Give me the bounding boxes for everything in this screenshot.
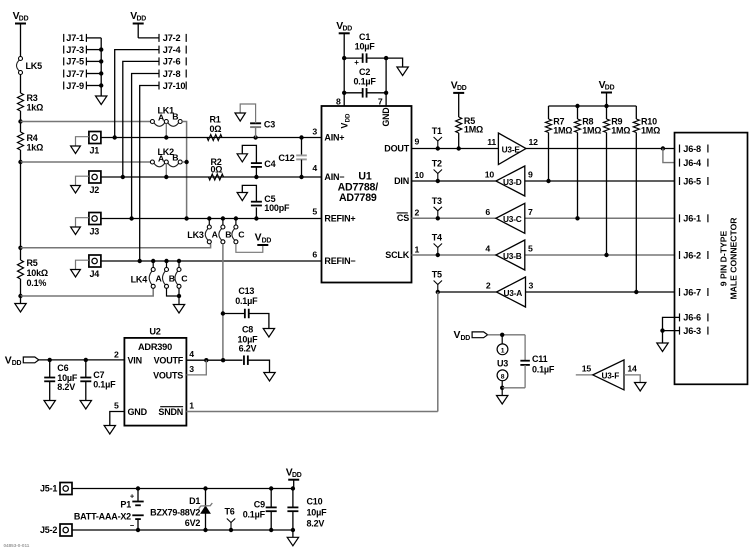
node CS / R8 <box>575 216 579 220</box>
svg-text:LK3: LK3 <box>187 230 204 240</box>
battery P1 BATT-AAA-X2 <box>74 489 144 531</box>
ground U2 GND pin5 <box>104 412 124 435</box>
testpoint T4 <box>432 233 442 258</box>
power VDD symbol (R5 pullup) <box>451 81 467 117</box>
wire J7 odd-pin ground bus <box>86 38 103 96</box>
svg-text:D1: D1 <box>189 496 200 506</box>
svg-text:C8: C8 <box>242 325 253 335</box>
svg-text:R5: R5 <box>27 258 38 268</box>
svg-text:J6-4: J6-4 <box>683 158 702 168</box>
wire battery top rail <box>72 486 295 490</box>
svg-text:1MΩ: 1MΩ <box>464 124 483 134</box>
power VDD flag (U2 VIN) <box>5 355 39 367</box>
power VDD symbol (J7-2) <box>130 11 146 38</box>
connector J7 odd pins J7-1/3/5/7/9 <box>64 33 87 91</box>
testpoint T2 <box>432 159 442 184</box>
capacitor C4 <box>237 145 275 177</box>
ground J1 <box>71 137 89 154</box>
wire R3 to node, left rail <box>20 111 22 132</box>
svg-text:C: C <box>238 229 245 239</box>
power VDD flag (U3 supply) <box>454 330 488 342</box>
svg-text:LK4: LK4 <box>131 274 148 284</box>
node C1/C2 right <box>384 56 388 60</box>
wire J7-8 to REFIN+ net <box>132 74 159 219</box>
svg-text:BATT-AAA-X2: BATT-AAA-X2 <box>74 512 131 522</box>
svg-text:0.1%: 0.1% <box>27 278 47 288</box>
testpoint T1 <box>432 126 442 151</box>
jumper LK2 <box>150 147 182 167</box>
resistor R10 1M <box>633 106 660 292</box>
svg-text:R3: R3 <box>27 93 38 103</box>
svg-text:7: 7 <box>378 96 383 106</box>
connector pin J6-8 <box>680 144 708 154</box>
node left-rail bottom / LK4-A tap <box>18 294 22 298</box>
wire SCLK net <box>412 254 680 256</box>
power VDD symbol (battery output) <box>286 467 302 488</box>
svg-text:9 PIN D-TYPE: 9 PIN D-TYPE <box>719 231 729 287</box>
svg-text:5: 5 <box>114 401 119 411</box>
capacitor C10 10uF 8.2V <box>287 489 327 531</box>
wire LK1 common to AIN+ <box>165 124 167 138</box>
svg-text:J7-2: J7-2 <box>163 33 181 43</box>
svg-text:R4: R4 <box>27 133 38 143</box>
connector J5-2 <box>40 524 72 536</box>
ground battery rail <box>287 530 298 546</box>
power VDD symbol (top-left, feeds LK5) <box>13 11 29 56</box>
svg-text:04853-0-011: 04853-0-011 <box>4 543 30 547</box>
svg-text:4: 4 <box>485 244 490 254</box>
connector pin J6-2 <box>680 250 708 260</box>
connector J4 <box>89 255 101 279</box>
svg-text:CS: CS <box>397 213 409 223</box>
node left-rail / LK1-A tap <box>18 119 22 123</box>
svg-text:B: B <box>169 273 175 283</box>
wire to J6-4 <box>663 149 679 163</box>
wire R4 to node <box>20 150 22 162</box>
wire LK4-B to ground node <box>167 288 180 296</box>
svg-text:AD7789: AD7789 <box>339 192 377 204</box>
svg-text:2: 2 <box>486 281 491 291</box>
svg-text:8.2V: 8.2V <box>57 382 75 392</box>
svg-text:V: V <box>340 123 350 129</box>
svg-text:1kΩ: 1kΩ <box>27 143 44 153</box>
svg-text:10µF: 10µF <box>355 41 376 51</box>
svg-text:9: 9 <box>528 170 533 180</box>
buffer U3-F (unused) <box>576 360 637 390</box>
buffer U3-B <box>485 240 533 270</box>
wire LK3-B to VOUTF net <box>222 244 224 360</box>
ground J3 <box>71 218 89 235</box>
svg-text:1kΩ: 1kΩ <box>27 103 44 113</box>
buffer U3-C <box>485 203 533 233</box>
connector pin J6-3 <box>680 326 708 336</box>
svg-text:C13: C13 <box>238 286 254 296</box>
jumper LK5 <box>17 57 43 75</box>
resistor R3 1k <box>18 93 44 113</box>
svg-text:J6-7: J6-7 <box>683 287 701 297</box>
svg-text:C4: C4 <box>264 159 275 169</box>
node DIN / R7 <box>546 179 550 183</box>
svg-text:B: B <box>172 111 178 121</box>
svg-text:VOUTS: VOUTS <box>153 370 183 380</box>
svg-text:J6-8: J6-8 <box>683 144 701 154</box>
capacitor C7 0.1uF <box>80 358 116 409</box>
svg-text:8.2V: 8.2V <box>307 519 325 529</box>
jumper LK1 <box>150 106 182 127</box>
svg-text:C1: C1 <box>359 32 370 42</box>
svg-text:DD: DD <box>292 472 302 479</box>
buffer U3-A <box>486 277 534 307</box>
power VDD symbol (pullup rail) <box>599 80 615 106</box>
node left-rail / LK2-A tap <box>18 160 22 164</box>
buffer U3-E <box>487 133 538 165</box>
svg-text:J7-8: J7-8 <box>163 69 181 79</box>
svg-text:3: 3 <box>529 281 534 291</box>
wire J1 to net <box>101 137 322 139</box>
svg-text:T1: T1 <box>432 126 442 136</box>
ground C1/C2 <box>386 58 408 75</box>
svg-text:GND: GND <box>128 407 148 417</box>
node C2 left / pin8 stub <box>342 58 346 106</box>
svg-text:J5-1: J5-1 <box>40 484 57 494</box>
connector J6 9-pin D-type box <box>675 133 748 385</box>
capacitor C11 0.1uF <box>520 335 555 388</box>
wire VDD to VIN <box>39 359 125 361</box>
svg-text:J6-2: J6-2 <box>683 250 701 260</box>
svg-text:U3-D: U3-D <box>503 177 522 187</box>
svg-text:REFIN+: REFIN+ <box>324 213 355 223</box>
svg-text:14: 14 <box>627 363 637 373</box>
capacitor C3 <box>235 104 275 138</box>
wire LK1 B to vertical link bus <box>182 122 186 219</box>
svg-text:DD: DD <box>262 238 272 245</box>
ground J2 <box>71 176 89 193</box>
figure number <box>4 543 30 547</box>
svg-text:U3-A: U3-A <box>504 288 523 298</box>
resistor R4 1k <box>18 132 44 153</box>
svg-text:0.1µF: 0.1µF <box>532 364 555 374</box>
wire battery bottom rail <box>72 528 295 532</box>
svg-text:U2: U2 <box>149 326 160 336</box>
svg-text:C11: C11 <box>532 354 548 364</box>
svg-text:+: + <box>354 58 359 67</box>
wire tap to LK3 A <box>21 244 211 248</box>
resistor R7 1M <box>546 106 573 181</box>
wire tap to LK2 A <box>21 161 151 163</box>
node link bus on REFIN+ <box>184 216 188 220</box>
svg-text:6: 6 <box>485 207 490 217</box>
svg-text:J7-4: J7-4 <box>163 45 182 55</box>
capacitor C9 0.1uF <box>243 489 277 531</box>
svg-text:2: 2 <box>415 207 420 217</box>
IC U3 label <box>497 358 508 368</box>
wire pullup rail <box>549 104 637 108</box>
svg-text:V: V <box>255 233 262 244</box>
svg-text:1MΩ: 1MΩ <box>553 126 572 136</box>
wire DIN net <box>412 180 680 182</box>
connector pin J6-1 <box>680 214 708 224</box>
connector J5-1 <box>40 483 72 495</box>
resistor R8 1M <box>575 106 602 218</box>
svg-text:J7-7: J7-7 <box>66 69 84 79</box>
svg-text:C2: C2 <box>359 67 370 77</box>
connector J2 <box>89 171 101 195</box>
svg-text:J6-5: J6-5 <box>683 176 701 186</box>
capacitor C5 100pF <box>237 185 290 218</box>
wire LK5 to R3 <box>20 75 22 94</box>
svg-text:DD: DD <box>457 85 467 92</box>
wire J4 to net <box>101 260 322 262</box>
wire J2 to net <box>101 176 322 178</box>
svg-text:DD: DD <box>343 25 353 32</box>
svg-text:J7-9: J7-9 <box>66 81 84 91</box>
svg-text:2: 2 <box>114 350 119 360</box>
node C2 right / pin7 stub <box>384 58 388 106</box>
svg-text:U3: U3 <box>497 358 508 368</box>
svg-text:8: 8 <box>336 96 341 106</box>
svg-text:U3-C: U3-C <box>503 214 522 224</box>
capacitor C1 10uF <box>344 32 386 67</box>
svg-text:100pF: 100pF <box>264 203 290 213</box>
svg-text:11: 11 <box>487 137 496 147</box>
svg-text:0.1µF: 0.1µF <box>243 509 266 519</box>
connector J3 <box>89 213 101 237</box>
svg-text:DD: DD <box>12 360 22 367</box>
wire CS net <box>412 217 680 219</box>
svg-text:0.1µF: 0.1µF <box>353 77 376 87</box>
voltage reference U2 ADR390 <box>114 326 194 425</box>
ground U3-F output <box>624 375 646 391</box>
node line5 / R10 <box>634 290 638 294</box>
zener diode D1 BZX79-88V2 6V2 <box>150 489 212 531</box>
wire left rail down <box>20 162 22 260</box>
node REFIN+ junctions <box>129 216 258 220</box>
node U3 pin8 / C11 bottom <box>500 386 525 390</box>
svg-text:J2: J2 <box>90 185 100 195</box>
wire VOUTS loop <box>186 360 206 375</box>
svg-text:U3-F: U3-F <box>601 371 619 381</box>
wire J7-10 to REFIN- net <box>140 86 159 262</box>
svg-text:3: 3 <box>312 126 317 136</box>
svg-text:C: C <box>181 273 188 283</box>
ground LK4 B/C <box>173 288 184 313</box>
wire J7-4 to AIN+ net <box>115 50 159 138</box>
wire R5 to bottom node <box>20 279 22 296</box>
svg-text:3: 3 <box>189 364 194 374</box>
svg-text:T4: T4 <box>432 233 442 243</box>
svg-text:C3: C3 <box>264 120 275 130</box>
svg-text:1: 1 <box>415 244 420 254</box>
wire J7-6 to AIN- net <box>123 61 159 177</box>
wire LK3-C to VDD <box>236 244 263 253</box>
svg-text:SCLK: SCLK <box>385 250 409 260</box>
connector J7 even pins J7-2/4/6/8/10 <box>159 33 186 91</box>
svg-text:SNDN: SNDN <box>158 407 183 417</box>
svg-text:C10: C10 <box>307 496 323 506</box>
svg-text:DD: DD <box>19 16 29 23</box>
ADC U1 AD7788/AD7789 <box>312 96 424 282</box>
connector pin J6-4 <box>680 158 708 168</box>
svg-text:15: 15 <box>582 363 592 373</box>
power VDD symbol (LK3-C) <box>255 233 272 245</box>
svg-text:0.1µF: 0.1µF <box>235 296 258 306</box>
wire VOUTF net <box>186 358 242 362</box>
wire SNDN net to T5 <box>186 292 437 412</box>
svg-text:DOUT: DOUT <box>384 143 409 153</box>
ground left-rail bottom <box>15 296 26 312</box>
node LK3-B / C13 tap <box>221 311 225 315</box>
svg-text:10: 10 <box>415 170 425 180</box>
svg-text:P1: P1 <box>120 499 131 509</box>
ground J4 <box>71 260 89 277</box>
svg-text:6V2: 6V2 <box>185 518 201 528</box>
svg-text:V: V <box>5 355 12 366</box>
svg-text:C9: C9 <box>254 500 265 510</box>
wire LK2 common to AIN- <box>165 164 167 177</box>
svg-text:J7-5: J7-5 <box>66 57 84 67</box>
capacitor C2 0.1uF <box>344 67 386 98</box>
jumper LK3 <box>187 219 245 244</box>
svg-text:T6: T6 <box>224 507 234 517</box>
svg-text:T5: T5 <box>432 270 442 280</box>
svg-text:AIN−: AIN− <box>324 172 344 182</box>
svg-text:BZX79-88V2: BZX79-88V2 <box>150 508 200 518</box>
node AIN+ junctions <box>113 135 304 139</box>
capacitor C8 10uF 6.2V <box>238 325 276 381</box>
svg-text:1MΩ: 1MΩ <box>582 126 601 136</box>
buffer U3-D <box>485 166 533 196</box>
svg-text:ADR390: ADR390 <box>138 342 172 352</box>
jumper LK4 <box>131 261 189 288</box>
node DOUT / J6-8 J6-4 <box>661 146 665 150</box>
svg-text:7: 7 <box>528 207 533 217</box>
svg-text:J6-3: J6-3 <box>683 326 701 336</box>
wire DOUT net <box>412 148 680 150</box>
svg-text:J7-10: J7-10 <box>163 81 186 91</box>
capacitor C6 10uF 8.2V <box>44 358 78 409</box>
svg-text:10: 10 <box>485 170 495 180</box>
svg-text:1MΩ: 1MΩ <box>641 126 660 136</box>
svg-text:V: V <box>454 330 461 341</box>
svg-text:B: B <box>172 152 178 162</box>
svg-text:4: 4 <box>312 163 317 173</box>
svg-text:J4: J4 <box>90 269 100 279</box>
ground U3 pin8 <box>497 388 508 404</box>
node AIN- junctions <box>121 175 304 179</box>
wire tap to LK4 A <box>21 288 154 296</box>
svg-text:T3: T3 <box>432 196 442 206</box>
wire buffered line to J6-7 <box>438 291 680 293</box>
testpoint T3 <box>432 196 442 221</box>
connector pin J6-6 <box>680 313 708 323</box>
connector pin J6-5 <box>680 176 708 186</box>
svg-text:A: A <box>156 273 163 283</box>
capacitor C12 <box>278 138 306 178</box>
svg-text:4: 4 <box>189 349 194 359</box>
svg-text:12: 12 <box>529 137 539 147</box>
svg-text:0Ω: 0Ω <box>210 124 222 134</box>
svg-text:6.2V: 6.2V <box>239 344 257 354</box>
svg-text:MALE CONNECTOR: MALE CONNECTOR <box>729 217 739 300</box>
IC U3 power pin 1 <box>497 335 508 355</box>
svg-text:10µF: 10µF <box>307 508 328 518</box>
svg-text:U3-B: U3-B <box>503 251 522 261</box>
testpoint T5 <box>432 270 442 294</box>
svg-text:VOUTF: VOUTF <box>154 356 184 366</box>
wire VDD to U3 pin1 / C11 <box>488 333 525 337</box>
svg-text:J5-2: J5-2 <box>40 525 57 535</box>
svg-text:R1: R1 <box>210 114 221 124</box>
svg-text:DD: DD <box>605 85 615 92</box>
svg-text:REFIN−: REFIN− <box>324 256 355 266</box>
node VDD/C1 <box>342 56 346 60</box>
svg-text:8: 8 <box>501 373 505 380</box>
svg-text:J7-3: J7-3 <box>66 45 84 55</box>
svg-text:C12: C12 <box>278 153 294 163</box>
node LK4 B/C ground junction <box>177 294 181 298</box>
connector pin J6-7 <box>680 287 708 297</box>
svg-text:0.1µF: 0.1µF <box>93 380 116 390</box>
svg-text:DIN: DIN <box>394 176 409 186</box>
svg-text:1: 1 <box>189 401 194 411</box>
svg-text:1MΩ: 1MΩ <box>611 126 630 136</box>
svg-text:10kΩ: 10kΩ <box>27 268 48 278</box>
resistor R2 0ohm <box>209 157 224 180</box>
svg-text:DD: DD <box>345 113 351 122</box>
connector J1 <box>89 132 101 156</box>
resistor R9 1M <box>604 106 631 255</box>
node SCLK / R9 <box>604 253 608 257</box>
power VDD symbol (U1 supply) <box>336 21 352 58</box>
svg-text:6: 6 <box>312 249 317 259</box>
node REFIN- junctions <box>138 259 182 263</box>
svg-text:C7: C7 <box>93 370 104 380</box>
svg-text:VIN: VIN <box>128 356 142 366</box>
svg-text:DD: DD <box>137 16 147 23</box>
resistor R5 1M <box>456 116 483 151</box>
node left-rail / LK3-A tap <box>18 246 22 250</box>
svg-text:C6: C6 <box>57 363 68 373</box>
svg-text:J7-6: J7-6 <box>163 57 181 67</box>
wire VDD to J7-2 <box>138 37 159 39</box>
svg-text:J6-6: J6-6 <box>683 313 701 323</box>
svg-text:9: 9 <box>415 136 420 146</box>
wire J3 to net <box>101 218 322 220</box>
wire tap to LK1 A <box>21 121 151 123</box>
svg-text:B: B <box>225 229 231 239</box>
svg-text:1: 1 <box>501 347 505 354</box>
svg-text:T2: T2 <box>432 159 442 169</box>
svg-text:DD: DD <box>461 335 471 342</box>
wire J6-6 / J6-3 to ground <box>657 317 680 351</box>
svg-text:J6-1: J6-1 <box>683 214 701 224</box>
ground J7 bus <box>96 96 107 105</box>
svg-text:GND: GND <box>381 108 391 127</box>
testpoint T6 <box>224 507 235 531</box>
capacitor C13 0.1uF <box>223 286 275 337</box>
svg-text:LK5: LK5 <box>26 61 43 71</box>
svg-text:5: 5 <box>528 244 533 254</box>
svg-text:5: 5 <box>312 206 317 216</box>
svg-text:U3-E: U3-E <box>502 144 521 154</box>
svg-text:J7-1: J7-1 <box>66 33 84 43</box>
svg-text:J1: J1 <box>90 146 100 156</box>
IC U3 power pin 8 <box>497 370 508 388</box>
node LK2-B on link bus <box>182 160 189 164</box>
svg-text:J3: J3 <box>90 227 100 237</box>
resistor R5 10k 0.1% <box>18 258 48 288</box>
svg-text:A: A <box>212 229 219 239</box>
